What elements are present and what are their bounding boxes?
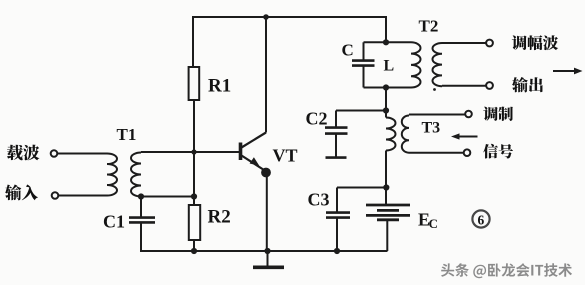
wire: input lower lead xyxy=(59,195,108,197)
svg-text:C1: C1 xyxy=(103,212,125,232)
wire: R2 bottom lead to ground rail xyxy=(193,240,195,251)
node: tank top junction xyxy=(383,39,389,45)
node: T1 secondary bottom junction xyxy=(138,193,144,199)
figure number circled 6 xyxy=(472,210,489,227)
node: C2 branch junction xyxy=(383,107,389,113)
wire: bottom ground rail xyxy=(140,250,388,252)
svg-text:R1: R1 xyxy=(208,76,231,97)
label 载波 (carrier) xyxy=(7,145,39,161)
ground symbol xyxy=(253,251,284,267)
transistor VT emitter stroke with arrow xyxy=(242,156,265,171)
wire: T3 secondary top corner xyxy=(408,115,410,116)
wire: tank bottom to C2 junction xyxy=(385,88,387,118)
wire: modulation upper lead xyxy=(409,114,465,116)
capacitor C (tank) xyxy=(352,61,375,66)
node: divider/R2-top junction xyxy=(191,193,197,199)
wire: C3 branch xyxy=(337,187,386,189)
terminal bar: C2 bottom xyxy=(326,156,347,159)
node: collector rail junction xyxy=(263,14,269,20)
terminal: carrier input lower xyxy=(52,192,59,199)
transistor VT emitter dot xyxy=(261,168,271,178)
wire: C3 bottom lead xyxy=(336,218,338,251)
terminal: modulation upper xyxy=(465,111,472,118)
wire: R1 top lead from rail xyxy=(192,16,194,67)
wire: C2 top lead xyxy=(335,111,337,128)
wire: C1 bottom lead xyxy=(140,223,142,252)
inductor L / T2 primary winding xyxy=(411,42,421,87)
svg-text:6: 6 xyxy=(478,213,485,228)
svg-text:T3: T3 xyxy=(422,120,441,137)
transformer T3 secondary winding xyxy=(402,116,409,153)
label 调制 (modulation) xyxy=(483,107,513,121)
label EC xyxy=(418,210,438,232)
wire: modulation lower lead xyxy=(409,152,464,154)
transformer T3 primary winding xyxy=(386,118,396,151)
wire: output lower lead xyxy=(442,85,486,87)
wire: tank bottom side xyxy=(364,87,412,89)
wire: battery bottom to rail xyxy=(386,220,388,251)
wire: C2 branch xyxy=(336,110,386,112)
transistor VT base bar xyxy=(239,143,243,161)
transformer T1 secondary winding xyxy=(131,153,141,197)
capacitor C2 xyxy=(325,128,348,134)
svg-text:T1: T1 xyxy=(117,125,137,144)
label 信号 (signal) xyxy=(483,144,513,159)
svg-text:VT: VT xyxy=(273,146,298,166)
wire: C1 top lead xyxy=(140,197,142,218)
node: tank bottom junction xyxy=(383,84,389,90)
battery EC plates xyxy=(366,205,410,220)
wire: emitter down to rail xyxy=(266,175,268,251)
wire: top supply rail xyxy=(192,16,386,18)
label 输入 (input) xyxy=(5,184,38,200)
resistor R2 xyxy=(189,205,200,240)
arrow: modulation direction (left) xyxy=(451,133,478,139)
label 输出 (output) xyxy=(512,77,543,92)
wire: tank top side xyxy=(364,41,412,43)
capacitor C3 xyxy=(326,213,350,218)
wire: tank left upper xyxy=(363,42,365,60)
node: R2 on rail xyxy=(191,248,197,254)
transistor VT emitter arrowhead xyxy=(250,157,260,166)
wire: T1 secondary top to transistor base xyxy=(141,151,240,153)
transformer T2 secondary winding xyxy=(433,43,443,86)
terminal: carrier input upper xyxy=(51,150,58,157)
svg-text:C: C xyxy=(342,41,354,60)
capacitor C1 xyxy=(129,218,155,223)
svg-text:R2: R2 xyxy=(208,207,231,228)
node: battery top junction xyxy=(383,184,389,190)
terminal: output upper xyxy=(486,40,493,47)
terminal: modulation lower xyxy=(464,149,471,156)
wire: collector to supply rail xyxy=(265,17,267,133)
phasing dot T2 xyxy=(433,88,436,91)
label 调幅波 (AM wave) xyxy=(512,35,558,50)
wire: tank left lower xyxy=(363,66,365,88)
svg-text:T2: T2 xyxy=(419,17,439,36)
wire: R1 bottom to R2 top (bias divider line) xyxy=(193,100,195,205)
resistor R1 xyxy=(189,67,200,100)
wire: T1 secondary bottom to divider xyxy=(141,196,194,198)
node: emitter on rail xyxy=(264,248,270,254)
svg-text:C: C xyxy=(429,216,438,231)
wire: C3 top lead xyxy=(336,188,338,213)
wire: T3 primary to battery xyxy=(385,151,387,205)
node: base bias junction xyxy=(191,149,196,154)
wire: output upper lead xyxy=(442,42,486,44)
watermark 头条@卧龙会IT技术 xyxy=(441,263,572,278)
transistor VT collector stroke xyxy=(242,133,267,148)
svg-text:C3: C3 xyxy=(308,190,330,210)
terminal: output lower xyxy=(486,82,493,89)
svg-text:C2: C2 xyxy=(306,109,328,129)
transformer T1 primary winding xyxy=(107,154,117,196)
arrow: output direction xyxy=(553,68,583,75)
wire: supply rail down to tank xyxy=(385,16,387,42)
wire: input upper lead xyxy=(58,153,108,155)
svg-text:L: L xyxy=(384,58,395,75)
wire: C2 bottom stub xyxy=(335,134,337,157)
node: C3 on rail xyxy=(334,248,340,254)
